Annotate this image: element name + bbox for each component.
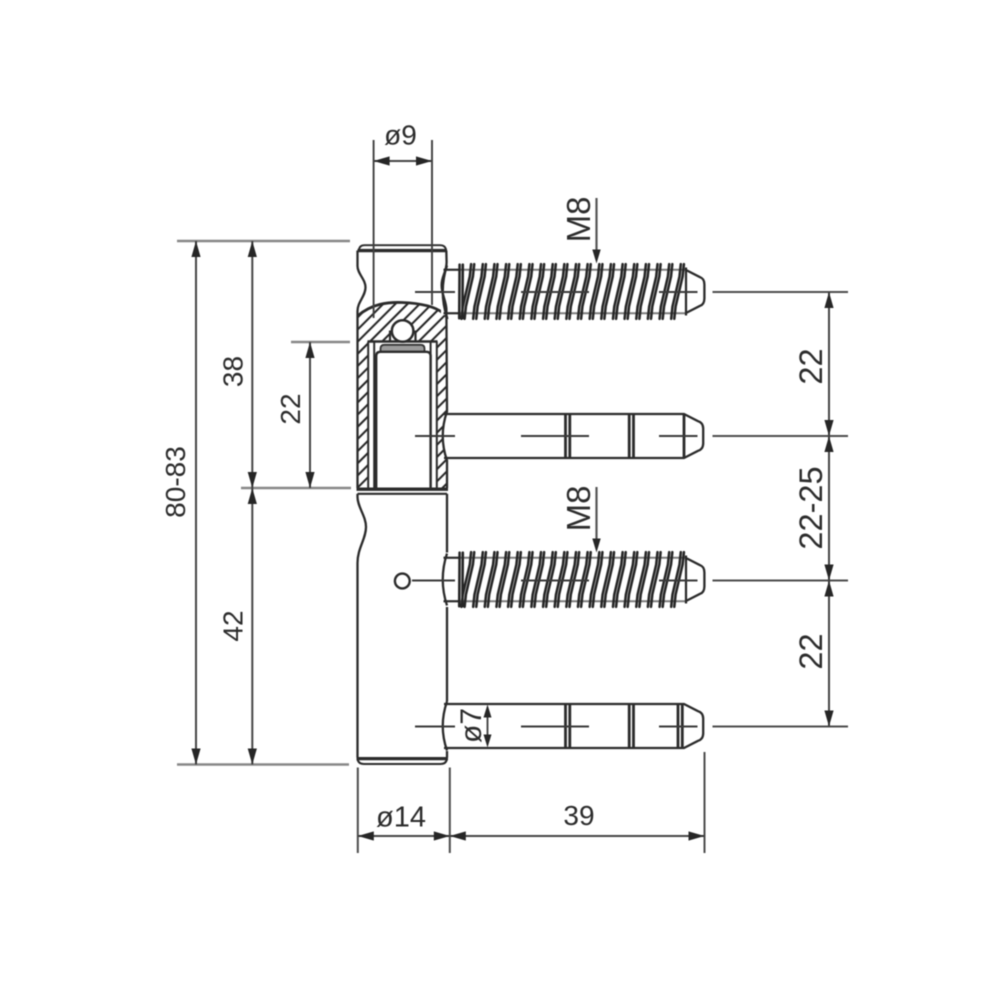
screw M8 lower: white mask	[441, 556, 703, 603]
screw M8 upper: collar outline and entry arc	[443, 266, 447, 318]
dimension 80-83 line	[195, 241, 197, 765]
gray extension line at liner top (22 dim)	[291, 341, 350, 343]
upper knuckle: dome outline	[358, 302, 448, 319]
pin middle guide: step separator lines	[564, 414, 567, 458]
svg-text:ø9: ø9	[384, 120, 417, 151]
gray extension line at body top	[177, 240, 350, 242]
pin bottom guide: step separator lines	[564, 704, 567, 748]
lower-part pin body inside upper knuckle (cavity)	[376, 352, 430, 489]
screw M8 upper: thread root lines	[459, 269, 686, 271]
upper knuckle: left edge with waist wave	[358, 251, 366, 489]
upper knuckle: hatched section dome and walls	[358, 302, 448, 341]
fixing hole in lower knuckle	[395, 574, 410, 589]
upper knuckle: bearing ball notch	[390, 331, 416, 342]
right chain dimension line	[828, 292, 830, 727]
svg-text:M8: M8	[560, 486, 597, 532]
screw M8 lower: thread end line	[685, 556, 687, 604]
dimension line dia14 and 39	[358, 835, 705, 837]
dimension line dia 9	[374, 160, 432, 162]
screw M8 upper: thread crests and flanks	[459, 264, 684, 319]
svg-text:M8: M8	[560, 197, 597, 243]
pin bottom guide: outline	[444, 704, 703, 748]
upper knuckle: top cap	[359, 245, 446, 250]
lower knuckle: left edge with wave	[358, 494, 367, 758]
svg-text:42: 42	[218, 610, 249, 641]
dimension arrows dia 7	[487, 708, 489, 744]
lower-part pin top cap (shaded)	[381, 345, 425, 352]
lower knuckle: bottom chamfered cap	[358, 759, 447, 764]
svg-text:38: 38	[218, 356, 249, 387]
screw M8 upper: chamfered tip	[686, 270, 704, 313]
screw M8 lower: thread crests and flanks	[459, 552, 684, 607]
svg-text:80-83: 80-83	[160, 446, 191, 518]
svg-text:39: 39	[563, 800, 594, 831]
leader arrow M8 lower	[595, 487, 597, 541]
upper knuckle: right edge with waist wave (crosses upper screw collar)	[442, 251, 447, 413]
svg-text:22: 22	[275, 393, 306, 424]
bottom extension line left	[357, 768, 359, 854]
bottom extension line middle	[449, 768, 451, 854]
screw M8 upper: white mask	[441, 268, 703, 315]
lower knuckle: bottom thick line	[357, 757, 449, 760]
pin middle guide: white body fill	[443, 414, 703, 458]
screw M8 lower: chamfered tip	[686, 558, 704, 601]
gray extension line at parting line	[241, 487, 351, 489]
bottom extension line right (pin tip)	[704, 752, 706, 853]
leader arrow M8 upper	[595, 198, 597, 252]
top edge of lower knuckle	[358, 493, 448, 495]
svg-text:22: 22	[793, 633, 829, 669]
pin middle guide: rounded left end arc	[443, 412, 447, 461]
extension lines for dia 9	[373, 140, 375, 318]
right-side extension lines at pin axes	[713, 291, 849, 293]
svg-text:22-25: 22-25	[793, 466, 829, 549]
screw M8 lower: collar outline and entry arc	[443, 554, 447, 606]
screw M8 lower: thread root lines	[459, 557, 686, 559]
upper knuckle: liner sleeve top edges	[368, 340, 438, 342]
dimension 38 / 42 line	[251, 241, 253, 765]
pin bottom guide: white body fill	[443, 704, 703, 748]
bearing ball	[392, 320, 414, 342]
lower knuckle: right edge (gaps at screw and pin entries)	[446, 494, 448, 553]
svg-text:ø14: ø14	[376, 802, 426, 834]
upper knuckle: liner sleeve vertical lines	[367, 342, 369, 488]
pin middle guide: outline	[444, 414, 703, 458]
pin bottom guide: rounded left end arc	[443, 702, 447, 751]
centerlines of the four pins (dash-dot)	[415, 291, 455, 293]
dimension 22 (left) line	[309, 342, 311, 488]
parting line: bottom of upper knuckle (thick)	[357, 488, 449, 491]
svg-text:ø7: ø7	[455, 708, 488, 743]
svg-text:22: 22	[793, 348, 829, 384]
screw M8 upper: thread end line	[685, 268, 687, 316]
gray extension line at body bottom	[177, 763, 349, 765]
